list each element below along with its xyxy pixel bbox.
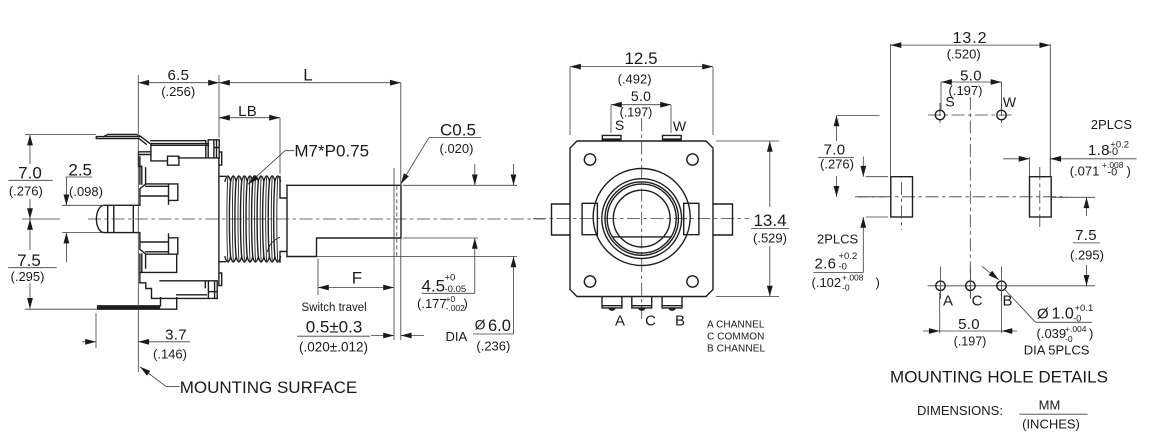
corner hole top-right [687, 154, 698, 165]
svg-text:(.276): (.276) [9, 184, 43, 199]
svg-text:5.0: 5.0 [960, 68, 982, 85]
hole S [935, 110, 944, 119]
svg-text:): ) [464, 296, 468, 311]
svg-text:B: B [675, 313, 685, 330]
svg-text:C COMMON: C COMMON [707, 331, 764, 342]
shaft flat chord [613, 236, 671, 238]
svg-text:1.0: 1.0 [1052, 306, 1074, 323]
right side tab [713, 204, 733, 235]
ring circle outer [602, 179, 682, 259]
svg-text:MOUNTING SURFACE: MOUNTING SURFACE [180, 378, 358, 397]
svg-text:(.295): (.295) [1070, 248, 1104, 263]
svg-text:): ) [876, 275, 880, 290]
left staircase lower [140, 254, 177, 298]
hole A [936, 281, 945, 290]
corner hole top-left [584, 154, 595, 165]
body right edge (mounting surface side) [218, 158, 220, 286]
upper channel [140, 157, 146, 184]
terminal C [632, 297, 652, 308]
push rod [96, 205, 139, 232]
right slot [1030, 177, 1052, 217]
dim 4.5 shaft flat [474, 164, 476, 185]
svg-text:(.177: (.177 [417, 296, 447, 311]
svg-text:(.236): (.236) [476, 339, 510, 354]
shaft chamfer hidden line [396, 186, 398, 256]
svg-text:(.102: (.102 [812, 275, 842, 290]
svg-text:(.492): (.492) [618, 72, 652, 87]
centerline S W holes [928, 114, 1013, 116]
hole B [997, 281, 1006, 290]
svg-text:F: F [352, 269, 362, 288]
svg-text:12.5: 12.5 [624, 49, 657, 68]
svg-text:6.0: 6.0 [488, 317, 511, 335]
svg-text:M7*P0.75: M7*P0.75 [294, 142, 369, 161]
corner hole bottom-right [687, 276, 698, 287]
label C0.5 chamfer [401, 137, 429, 184]
svg-text:(.020): (.020) [440, 141, 474, 156]
svg-text:+0.1: +0.1 [1075, 303, 1094, 314]
svg-text:Ø: Ø [475, 317, 486, 333]
svg-text:(.197): (.197) [954, 335, 987, 349]
centerline vertical [969, 97, 971, 300]
shaft neck [280, 177, 287, 263]
svg-text:-0: -0 [1073, 314, 1081, 325]
svg-text:Switch travel: Switch travel [302, 302, 367, 314]
dim 6.5 [138, 82, 219, 84]
centerline (shaft axis) [88, 218, 545, 220]
svg-text:(.071: (.071 [1070, 164, 1100, 179]
wire centerline left stub [22, 218, 60, 220]
dim 7.0 [29, 135, 31, 164]
left slot [891, 177, 913, 217]
encoder body side profile [96, 135, 221, 310]
bottom mounting tab [98, 298, 177, 310]
svg-text:5.0: 5.0 [958, 316, 980, 333]
hole B2 [966, 281, 975, 290]
dim 13.4 [716, 141, 779, 297]
dim 12.5 [570, 67, 713, 135]
dim 3.7 [82, 341, 96, 343]
svg-text:-.002: -.002 [446, 303, 466, 313]
dim F [317, 259, 319, 296]
svg-text:DIMENSIONS:: DIMENSIONS: [917, 403, 1003, 418]
top right bracket [178, 140, 219, 158]
leader diameter 1.0 [982, 266, 999, 280]
svg-text:(.256): (.256) [161, 84, 195, 99]
svg-text:C0.5: C0.5 [440, 121, 476, 140]
upper inner step [151, 152, 179, 165]
svg-text:(.197): (.197) [620, 106, 653, 120]
svg-text:DIA: DIA [446, 329, 468, 344]
right slot centerline [1039, 167, 1041, 231]
svg-text:-0: -0 [842, 283, 850, 293]
hole vertical ticks [941, 267, 1002, 300]
svg-text:+.004: +.004 [1065, 324, 1087, 334]
dim switch travel 0.5 [371, 335, 394, 337]
right small tab bottom [219, 273, 222, 286]
svg-text:13.4: 13.4 [753, 211, 786, 230]
svg-text:(.039: (.039 [1037, 326, 1067, 341]
body top edge [151, 140, 206, 142]
holes A C B line [928, 285, 1095, 287]
svg-text:(.020±.012): (.020±.012) [299, 340, 368, 355]
inner circle [613, 190, 670, 247]
svg-text:MM: MM [1039, 398, 1061, 413]
svg-text:Ø: Ø [1037, 306, 1049, 323]
body bottom edge [152, 297, 218, 299]
right small tab top [219, 152, 222, 165]
svg-text:+.008: +.008 [842, 273, 864, 283]
svg-text:(INCHES): (INCHES) [1022, 417, 1080, 432]
svg-text:7.5: 7.5 [17, 251, 41, 270]
svg-text:C: C [972, 293, 983, 310]
dim 5.0 SW [941, 82, 1002, 110]
svg-text:(.276): (.276) [820, 156, 854, 171]
thread bushing M7 [220, 176, 281, 262]
svg-text:3.7: 3.7 [165, 327, 187, 344]
extension lines top tab / bottom tab [25, 135, 98, 310]
mounting surface extension line [137, 75, 139, 372]
svg-text:5.0: 5.0 [631, 88, 651, 104]
svg-text:+0: +0 [445, 273, 456, 284]
svg-text:W: W [673, 118, 687, 134]
extension line LB right [279, 118, 281, 174]
svg-text:C: C [645, 313, 656, 330]
svg-text:-0: -0 [839, 262, 847, 273]
svg-text:(.295): (.295) [11, 269, 45, 284]
dim 7.5 [29, 219, 31, 250]
bottom inner line [160, 281, 217, 299]
svg-text:(.098): (.098) [69, 184, 103, 199]
shaft pressed position line [393, 168, 395, 340]
svg-text:0.5±0.3: 0.5±0.3 [306, 317, 363, 336]
dim diameter 6.0 [513, 164, 515, 185]
svg-text:7.5: 7.5 [1075, 227, 1097, 244]
shaft [287, 185, 401, 256]
centerlines [533, 218, 756, 220]
svg-text:2PLCS: 2PLCS [1091, 117, 1133, 132]
svg-text:+0.2: +0.2 [839, 251, 858, 262]
svg-text:B CHANNEL: B CHANNEL [707, 343, 765, 354]
dim LB [219, 117, 280, 119]
svg-text:S: S [945, 93, 954, 109]
hole W [997, 110, 1006, 119]
svg-text:6.5: 6.5 [168, 67, 190, 84]
svg-text:LB: LB [238, 103, 257, 120]
dim 13.2 [891, 44, 1051, 177]
ring circle inner [605, 182, 678, 255]
corner hole bottom-left [584, 276, 595, 287]
dim 7.5 [1052, 196, 1095, 198]
svg-text:MOUNTING HOLE DETAILS: MOUNTING HOLE DETAILS [890, 367, 1108, 386]
lower channel [140, 254, 142, 283]
svg-text:W: W [1003, 94, 1017, 110]
svg-text:7.0: 7.0 [18, 164, 42, 183]
shaft circle [607, 184, 676, 253]
svg-text:A CHANNEL: A CHANNEL [707, 319, 765, 330]
left slot centerline [901, 182, 903, 230]
body top slot lines [152, 144, 209, 146]
dim 2.6 slot height [866, 177, 888, 217]
top mounting tab [96, 135, 151, 145]
svg-text:A: A [943, 293, 953, 310]
extension line body right top [218, 75, 220, 138]
dim 5.0 AB [940, 293, 1002, 334]
boss right ear [684, 203, 699, 234]
left staircase upper [139, 144, 151, 166]
svg-text:A: A [615, 313, 625, 330]
svg-text:(.529): (.529) [753, 231, 787, 246]
svg-text:L: L [303, 65, 312, 84]
dim L [219, 82, 401, 84]
label M7*P0.75 [248, 151, 294, 185]
extension lines shaft dims [317, 185, 518, 256]
terminal B [662, 297, 682, 308]
dim 5.0 top [611, 105, 671, 133]
boss outer circle [593, 169, 690, 266]
svg-text:1.8: 1.8 [1088, 142, 1110, 159]
terminal S [602, 135, 621, 141]
svg-text:2PLCS: 2PLCS [817, 232, 859, 247]
dim 7.0 [837, 114, 880, 116]
shaft end extension line [400, 238, 402, 340]
left side tab [552, 204, 571, 235]
terminal W [663, 135, 682, 141]
label MOUNTING SURFACE [140, 367, 166, 387]
dim 2.5 rod [62, 205, 104, 232]
svg-text:S: S [615, 117, 624, 133]
lower pin band [140, 233, 178, 268]
svg-text:DIA 5PLCS: DIA 5PLCS [1024, 343, 1090, 358]
body front face square with chamfered corners [570, 141, 713, 297]
svg-text:B: B [1002, 293, 1012, 310]
svg-text:-0: -0 [1108, 146, 1118, 158]
centerline horizontal [855, 196, 1067, 198]
boss left ear [582, 203, 597, 234]
svg-text:(.520): (.520) [947, 47, 981, 62]
dim 1.8 slot width [1003, 158, 1030, 160]
svg-text:4.5: 4.5 [422, 277, 446, 296]
svg-text:): ) [1127, 164, 1131, 179]
extension line L right [400, 83, 402, 186]
svg-text:-0: -0 [1108, 167, 1118, 179]
svg-text:): ) [1089, 326, 1093, 341]
upper pin band [140, 184, 178, 205]
svg-text:2.6: 2.6 [815, 256, 837, 273]
extension line 3.7 left [95, 313, 97, 348]
svg-text:13.2: 13.2 [953, 30, 988, 47]
terminal A [602, 297, 622, 308]
svg-text:(.146): (.146) [153, 347, 187, 362]
